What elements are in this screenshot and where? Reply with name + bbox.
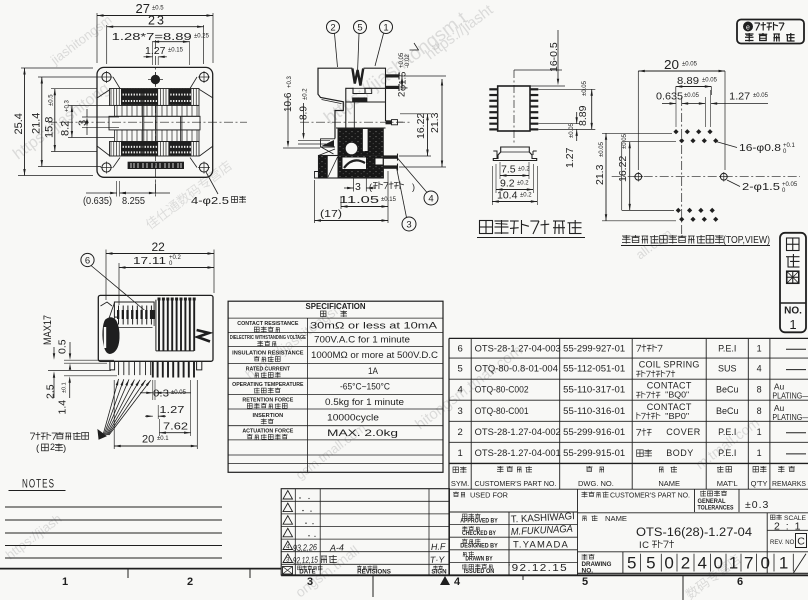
zone numbers [62,576,743,588]
svg-text:P.E.I: P.E.I [718,427,736,437]
svg-text:6: 6 [737,576,743,588]
svg-text:±0.05: ±0.05 [702,78,718,84]
svg-text:SUS: SUS [718,364,737,374]
svg-text:OTS-28-1.27-04-003: OTS-28-1.27-04-003 [475,343,561,353]
top view horizontal centerline [48,121,247,123]
title block staff labels [460,514,498,575]
svg-text:COIL SPRING: COIL SPRING [639,360,700,370]
svg-text:±0.5: ±0.5 [49,94,55,106]
dimension 27 +-0.5 overall width [97,1,213,63]
dimension 7.5 +-0.2 device [500,162,530,179]
revision row 4: 93.2.26 A-4 H.F [283,541,446,553]
zone tick marks [128,569,683,600]
svg-text:4: 4 [697,554,706,573]
svg-text:1: 1 [457,448,462,459]
dimension 7.62 mid view [159,380,190,436]
svg-text:2: 2 [187,576,193,588]
dimension 1.4 +-0.1 mid view [57,376,118,415]
svg-text:21.4: 21.4 [31,113,43,134]
svg-text:CONTACT: CONTACT [647,381,692,391]
svg-text:): ) [63,443,66,454]
title block used for cell [453,492,508,500]
svg-text:2: 2 [397,92,408,97]
svg-text:NO.: NO. [784,306,802,317]
mid view dimension 17.11 +0.2/0 [119,255,214,305]
svg-text:55-299-915-01: 55-299-915-01 [563,448,625,458]
svg-text:P.E.I: P.E.I [718,448,736,458]
side view adapter top block [336,68,386,128]
svg-text:1.27: 1.27 [159,404,184,416]
dimension (17) overall [315,171,389,223]
mid view bottom legs [110,361,202,370]
svg-text:4: 4 [454,576,461,588]
svg-text:(0.635): (0.635) [83,195,112,207]
svg-text:SPECIFICATION: SPECIFICATION [306,302,366,311]
svg-text:8: 8 [757,406,762,416]
svg-text:17.11: 17.11 [133,255,166,267]
svg-text:2: 2 [457,427,462,438]
top view lower secondary band [115,130,200,142]
svg-text:DWG. NO.: DWG. NO. [578,479,614,488]
svg-text:NAME: NAME [605,516,627,523]
svg-text:1.27: 1.27 [145,45,166,57]
side view lower right pins [383,154,398,171]
svg-text:1.4: 1.4 [57,400,69,415]
svg-text:C: C [797,536,805,548]
svg-text:USED FOR: USED FOR [470,493,508,500]
svg-text:5: 5 [646,554,655,573]
svg-text:INSERTION: INSERTION [253,413,284,419]
revision row 3: 92.12.15 kaitei T-Y [283,554,446,565]
svg-text:8: 8 [757,385,762,395]
dimension 25.4 overall height [13,68,93,176]
svg-text:OTQ-80-C001: OTQ-80-C001 [475,406,529,416]
drawing number digit boxes [627,554,806,574]
svg-text:8.89: 8.89 [577,105,589,126]
title block tolerance value [745,499,769,511]
svg-text:6: 6 [85,256,90,267]
mid view dimension 22 [106,240,214,300]
pcb pattern 16 mounting holes (diamonds) [673,129,718,222]
top view locating boss filled circle [148,72,163,87]
top view upper contact band [110,89,200,106]
svg-text:8.9: 8.9 [299,106,310,120]
svg-text:5: 5 [582,576,588,588]
svg-text:2: 2 [330,23,335,34]
pcb pattern dimension 1.27 +-0.05 [696,90,769,127]
svg-text:OTQ-80-C002: OTQ-80-C002 [475,385,529,395]
dimension 8.89 +-0.05 device pin span [538,80,595,129]
svg-text:7.5: 7.5 [501,164,516,176]
pcb pattern dimension 16.22 +-0.05 [617,133,676,210]
svg-text:CONTACT RESISTANCE: CONTACT RESISTANCE [237,321,298,327]
label 4-phi2.5 corner holes [191,172,246,207]
svg-text:1: 1 [729,554,738,573]
svg-text:10000cycle: 10000cycle [327,412,379,422]
svg-text:+0.3: +0.3 [287,75,293,88]
svg-text:1.27: 1.27 [564,147,576,168]
svg-text:OTS-16(28)-1.27-04: OTS-16(28)-1.27-04 [636,527,753,539]
dimension 10.4 +-0.2 device [492,166,537,205]
svg-text:11.05: 11.05 [339,194,379,206]
svg-text:ISSUED ON: ISSUED ON [464,568,495,575]
signature T.YAMADA [513,540,569,551]
svg-text:0.5kg for 1 minute: 0.5kg for 1 minute [325,397,404,407]
svg-text:2-φ1.5: 2-φ1.5 [742,181,780,193]
svg-text:92,12,15: 92,12,15 [293,555,319,566]
svg-text:IC: IC [639,540,650,551]
pcb pattern socket outline reference line [621,142,623,211]
mid view adapter comb pins [117,306,155,328]
pcb pattern dimension 21.3 +-0.05 [594,133,676,221]
svg-text:±0.15: ±0.15 [168,48,184,54]
svg-text:55-112-051-01: 55-112-051-01 [563,364,625,374]
svg-text:5: 5 [357,23,362,34]
svg-text:±0.1: ±0.1 [157,436,169,442]
svg-text:55-299-916-01: 55-299-916-01 [563,427,625,437]
pcb pattern dimension 20 +-0.05 [638,58,725,170]
svg-text:1000MΩ or more at 500V.D.C: 1000MΩ or more at 500V.D.C [311,350,439,360]
dimension 1.27 +-0.15 pin pitch [144,45,184,65]
device top view pins left and right [489,89,538,129]
svg-text:4: 4 [757,364,762,374]
svg-text:CHECKED BY: CHECKED BY [462,530,497,537]
svg-text:±0.1: ±0.1 [62,382,68,393]
dimension 0.3 +-0.05 pin width [140,380,191,400]
svg-text:SYM.: SYM. [451,479,469,488]
dimension 1.27 pin pitch mid view [145,404,185,419]
dimension (0.635) below top view [83,181,126,207]
svg-text:OTQ-80-0.8-01-004: OTQ-80-0.8-01-004 [475,364,558,374]
side view left latch tab [319,139,336,156]
svg-text:Q'TY: Q'TY [751,479,768,488]
svg-text:TOLERANCES: TOLERANCES [698,505,734,512]
svg-text:700V.A.C for 1 minute: 700V.A.C for 1 minute [314,335,410,345]
top view lower contact band [110,142,200,157]
top view center cross slot [109,89,200,156]
top view corner hole top-left [101,71,113,83]
svg-text:22: 22 [152,240,166,254]
dimension 8.9 +-0.2 [298,88,330,144]
svg-text:MAT'L: MAT'L [717,479,738,488]
svg-text:±0.2: ±0.2 [517,181,529,187]
svg-text:93,2,26: 93,2,26 [293,542,317,553]
specification table rows text [230,320,439,439]
svg-text:4: 4 [428,194,433,205]
svg-text:OTS-28-1.27-04-001: OTS-28-1.27-04-001 [475,448,561,458]
drawing no cell label [582,554,612,575]
mid view fins (contact array) [156,298,194,351]
svg-text:-65°C~150°C: -65°C~150°C [340,381,390,391]
dimension MAX17 [42,315,55,360]
svg-text:15.8: 15.8 [44,117,56,138]
svg-text:1A: 1A [368,366,378,376]
balloon 3 contact BP0 [397,168,417,232]
dimension 21.4 hole spacing vertical [31,77,102,167]
svg-text:(: ( [369,182,372,192]
dimension 11.05 +-0.1 [339,194,397,209]
revision table grid [281,489,449,575]
revision table triangles empty rows [283,491,316,537]
svg-text:CONTACT: CONTACT [647,402,692,412]
revision zu box (kaiteizu no.1) [780,233,806,332]
svg-text:NO.: NO. [582,568,594,575]
mid view adapter pocket outline [114,302,154,326]
svg-text:1: 1 [779,554,788,573]
svg-text:BeCu: BeCu [716,406,739,416]
side view horizontal centerline [300,121,412,123]
notes blank lines [5,507,222,558]
mid view bottom pins row [119,361,194,377]
svg-text:±0.2: ±0.2 [520,193,532,199]
svg-text:OPERATING TEMPERATURE: OPERATING TEMPERATURE [232,382,304,388]
svg-text:ACTUATION FORCE: ACTUATION FORCE [242,428,293,434]
svg-text:5: 5 [457,364,462,375]
callout 16-phi0.8 holes [716,142,796,156]
svg-text:16.22: 16.22 [617,156,629,182]
svg-text:DRAWN BY: DRAWN BY [465,555,493,562]
svg-text:±0.05: ±0.05 [622,133,628,149]
svg-text:2.5: 2.5 [45,384,57,399]
top view socket body outline [97,67,213,177]
notes heading [9,479,66,491]
svg-text:±0.05: ±0.05 [569,122,575,138]
balloon 4 contact BQ0 [397,158,438,206]
top view vertical centerline [154,40,156,196]
svg-text:(TOP,VIEW): (TOP,VIEW) [723,235,770,246]
svg-text:1: 1 [383,23,388,34]
svg-text:REMARKS: REMARKS [772,479,806,488]
product name OTS-16(28)-1.27-04 [636,527,753,539]
coil spring zigzag symbol [352,69,363,86]
device front view outline [493,147,536,161]
svg-text:±0.05: ±0.05 [684,93,700,99]
pcb pattern label (kanji) purinto kiban + TOP VIEW [621,235,770,246]
svg-text:PLATING—: PLATING— [772,391,808,401]
svg-text:55-299-927-01: 55-299-927-01 [563,343,625,353]
svg-text:10.4: 10.4 [497,190,518,202]
svg-text:2: 2 [50,442,55,453]
dimension 3 slot height [77,109,119,135]
svg-text:±0.05: ±0.05 [753,93,769,99]
mid view latch dark blob [101,302,120,353]
svg-text:±0.05: ±0.05 [582,80,588,96]
svg-text:1.27: 1.27 [729,91,750,103]
pcb pattern dimension 0.635 +-0.05 [656,91,700,128]
name cell label [583,515,628,523]
svg-text:APPROVED BY: APPROVED BY [460,518,498,525]
device top view body [498,86,530,131]
svg-text:0: 0 [664,554,673,573]
svg-text:16-φ0.8: 16-φ0.8 [739,142,781,154]
svg-text:±0.3: ±0.3 [745,499,769,511]
svg-text:P.E.I: P.E.I [718,343,736,353]
svg-text:9.2: 9.2 [500,178,515,190]
svg-text:±0.05: ±0.05 [682,62,698,68]
parts list header [451,466,806,488]
svg-text:21.3: 21.3 [594,164,606,185]
dimension 9.2 +-0.2 device [496,164,533,193]
svg-text:BODY: BODY [666,448,694,458]
svg-text:3: 3 [307,576,313,588]
svg-text:2 : 1: 2 : 1 [774,521,802,533]
pcb pattern dimension 8.89 +-0.05 [676,75,718,95]
svg-text:30mΩ or less at 10mA: 30mΩ or less at 10mA [310,320,437,330]
svg-text:55-110-316-01: 55-110-316-01 [563,406,625,416]
svg-text:"BP0": "BP0" [665,412,689,421]
svg-text:-0.02: -0.02 [405,54,411,68]
svg-text:6: 6 [457,343,462,354]
issued on date [508,562,568,574]
mid view body outline [98,295,213,361]
svg-text:±0.2: ±0.2 [518,167,530,173]
dimension 16-0.5 device length [514,30,565,86]
device top view centerline [513,70,515,145]
svg-text:NAME: NAME [658,479,680,488]
svg-text:8.255: 8.255 [122,195,145,207]
balloon 6 adapter [81,253,146,311]
svg-text:1.28*7=8.89: 1.28*7=8.89 [112,31,192,43]
dimension 1.27 +-0.05 device pin pitch [538,112,580,168]
title block customers part no cell [582,492,691,500]
svg-text:0: 0 [760,554,769,573]
svg-text:±0.15: ±0.15 [381,197,397,203]
top view corner hole bottom-left [101,162,113,174]
svg-text:COVER: COVER [666,427,701,437]
svg-text:16.22: 16.22 [415,113,427,139]
dimension 1.28*7=8.89 +-0.25 pin span [112,31,210,65]
svg-text:A-4: A-4 [329,543,344,554]
dimension 23 hole spacing [107,14,204,65]
top view part number label bar [128,162,184,169]
rev no cell [770,534,807,548]
svg-text:RETENTION FORCE: RETENTION FORCE [242,397,293,403]
dimension 8.255 below top view [120,181,171,207]
side view top right pin 2 [386,84,400,91]
title block grid [449,489,808,575]
svg-text:'92.12.15: '92.12.15 [508,562,568,574]
top view corner bevel lines [97,77,213,168]
svg-text:±0.25: ±0.25 [194,34,210,40]
svg-text:2: 2 [681,554,690,573]
svg-text:23: 23 [148,14,166,28]
svg-text:7.62: 7.62 [163,421,188,433]
dimension 2.5 mid view [45,371,112,400]
pcb pattern 2 large holes phi1.5 [634,172,729,182]
svg-text:NOTES: NOTES [22,479,55,491]
side view adapter ledge [353,88,372,101]
svg-text:8.2: 8.2 [60,121,72,136]
title block general tolerances cell [698,491,734,512]
top view corner hole top-right [198,71,210,83]
svg-text:RATED CURRENT: RATED CURRENT [246,366,291,372]
svg-text:0.635: 0.635 [656,91,683,103]
svg-text:e: e [746,25,750,32]
dimension 3 cover stroke with kana note [344,178,415,193]
top view corner hole bottom-right [198,162,210,174]
svg-text:CUSTOMER'S PART NO.: CUSTOMER'S PART NO. [474,479,556,488]
side view lower body hatched block [315,129,384,179]
svg-text:PLATING—: PLATING— [772,412,808,422]
svg-text:1: 1 [789,317,796,332]
svg-text:T.YAMADA: T.YAMADA [513,540,569,551]
side view cover outline [318,68,352,138]
svg-text:REV. NO.: REV. NO. [770,539,796,546]
svg-text:±0.2: ±0.2 [303,88,309,100]
svg-text:21.3: 21.3 [429,112,441,133]
specification table title [306,302,366,317]
svg-text:CUSTOMER'S PART NO.: CUSTOMER'S PART NO. [610,493,690,500]
balloon 2 cover [327,21,340,68]
svg-text:DESIGNED BY: DESIGNED BY [460,543,498,550]
signature M.FUKUNAGA [511,524,574,538]
svg-text:10.6: 10.6 [283,92,294,112]
callout 2-phi1.5 holes [727,180,798,194]
dimension 8.2 +-0.3 slot span [60,99,115,137]
svg-text:25.4: 25.4 [13,113,25,134]
scale cell [771,515,807,533]
svg-text:20: 20 [664,58,679,72]
svg-text:4: 4 [457,385,462,396]
side view top right pin 1 [386,73,400,80]
svg-text:MAX17: MAX17 [42,315,54,345]
svg-text:0.5: 0.5 [57,339,69,354]
signature T.KASHIWAGI [511,511,575,525]
svg-text:"BQ0": "BQ0" [665,391,689,400]
revision table header [283,566,448,576]
svg-text:20: 20 [142,434,154,446]
specification table grid [228,301,443,472]
pcb pattern centerlines [612,97,800,237]
sheet bottom frame line [0,569,808,576]
svg-text:±0.05: ±0.05 [599,141,605,157]
parts list rows [457,343,808,459]
svg-text:1: 1 [757,448,762,458]
svg-text:4-φ2.5: 4-φ2.5 [191,195,229,207]
svg-text:BeCu: BeCu [716,385,739,395]
label allowable device dimensions (kanji) [477,220,585,238]
balloon 1 body [375,21,393,67]
svg-text:3: 3 [406,220,411,231]
dimension 16.22 side view [399,113,431,156]
mid view spring zigzag right [197,330,210,342]
svg-text:DIELECTRIC WITHSTANDING VOLTAG: DIELECTRIC WITHSTANDING VOLTAGE [230,335,306,341]
svg-text:7: 7 [744,554,753,573]
svg-text:3: 3 [355,181,361,193]
balloon 5 coil spring [354,21,367,74]
svg-text:5: 5 [627,554,636,573]
contact pins not-inserted fan arrows [98,379,151,439]
dimension 20 +-0.1 mid view [114,380,197,449]
product name IC socket [639,540,674,551]
svg-text:): ) [412,182,415,192]
svg-text:1: 1 [62,576,68,588]
dimension phi1.5 top pins callout [397,43,419,97]
svg-text:55-110-317-01: 55-110-317-01 [563,385,625,395]
svg-text:(17): (17) [320,208,342,220]
svg-text:OTS-28-1.27-04-002: OTS-28-1.27-04-002 [475,427,561,437]
dimension 0.5 mid view [57,339,115,370]
svg-text:3: 3 [457,406,462,417]
svg-text:1: 1 [757,343,762,353]
label contact pins not inserted (kanji) [30,432,89,454]
svg-text:φ1.5: φ1.5 [398,72,409,91]
dimension 15.8 +-0.5 band span [44,89,98,152]
enplas logo box [737,20,804,44]
svg-text:T·Y: T·Y [430,554,446,565]
side view middle pin with tip [386,120,404,125]
top view upper secondary band [115,105,200,116]
